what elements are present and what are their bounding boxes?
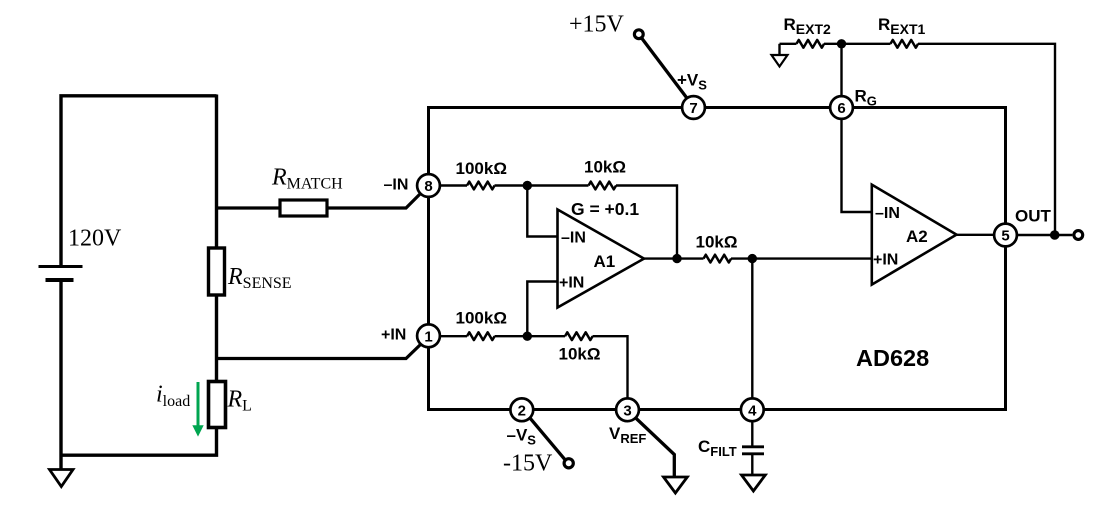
svg-text:A2: A2 — [906, 227, 928, 246]
wire pin1 row — [440, 335, 467, 337]
node mid junction — [748, 254, 757, 263]
label R_EXT1 — [878, 15, 926, 37]
svg-text:+IN: +IN — [381, 327, 406, 344]
wire A1 +IN rise — [527, 282, 557, 337]
svg-text:120V: 120V — [68, 226, 122, 252]
resistor 100k bottom — [467, 332, 495, 340]
wire mid junction to pin 4 — [751, 259, 753, 399]
label R_MATCH — [271, 165, 343, 193]
label 120V — [68, 226, 122, 252]
resistor 10k mid — [704, 255, 732, 263]
resistor R_MATCH — [280, 200, 327, 216]
battery 120V — [39, 267, 83, 456]
label A2 +IN — [873, 251, 898, 268]
wire left loop top edge — [61, 96, 217, 266]
wire top external row — [780, 43, 797, 45]
svg-text:–IN: –IN — [561, 230, 586, 247]
node A1 output — [672, 254, 681, 263]
op-amp A1 — [558, 210, 645, 308]
ground C_FILT — [742, 475, 766, 491]
svg-text:-15V: -15V — [503, 451, 553, 477]
pin 2 — [510, 398, 533, 421]
AD628 box — [429, 108, 1006, 410]
label 10k mid — [696, 233, 738, 252]
pin 3 — [616, 398, 639, 421]
wire R_MATCH to pin 8 — [327, 194, 421, 209]
wire to junction — [495, 184, 589, 186]
svg-text:10kΩ: 10kΩ — [696, 233, 738, 252]
label -15V — [503, 451, 553, 477]
current arrow i_load — [192, 382, 203, 437]
label R_EXT2 — [784, 15, 832, 37]
svg-text:6: 6 — [837, 100, 845, 117]
resistor R_SENSE — [209, 248, 225, 295]
pin 8 — [417, 174, 440, 197]
wire OUT — [1017, 234, 1072, 236]
pin 4 — [741, 398, 764, 421]
label A1 +IN — [559, 275, 584, 292]
svg-text:–IN: –IN — [384, 177, 409, 194]
ground R_EXT2 — [772, 44, 788, 67]
wire bottom edge — [61, 428, 217, 456]
svg-text:+IN: +IN — [873, 251, 898, 268]
svg-text:G = +0.1: G = +0.1 — [571, 199, 639, 219]
label 10k feedback — [584, 158, 626, 177]
wire A2 output to pin 5 — [957, 234, 995, 236]
wire pin3 to ground — [635, 418, 674, 477]
ground bottom-left — [50, 455, 74, 487]
resistor R_EXT1 — [891, 40, 919, 48]
wire feedback to output — [616, 186, 677, 259]
svg-text:–IN: –IN — [875, 205, 900, 222]
label A1 — [594, 252, 616, 271]
terminal OUT — [1074, 231, 1083, 240]
label i_load — [156, 381, 190, 410]
node junction bottom — [523, 332, 532, 341]
svg-text:10kΩ: 10kΩ — [584, 158, 626, 177]
wire +IN branch — [217, 345, 421, 359]
label R_L — [227, 387, 252, 415]
wire between R_SENSE and R_L — [215, 295, 218, 382]
terminal -15V — [530, 418, 574, 468]
wire between REXT2 and REXT1 — [824, 43, 891, 45]
svg-text:3: 3 — [623, 402, 631, 419]
pin 1 — [417, 324, 440, 347]
svg-text:100kΩ: 100kΩ — [456, 159, 507, 178]
wire R_MATCH branch — [217, 206, 281, 209]
label AD628 — [856, 345, 929, 371]
svg-text:7: 7 — [689, 100, 697, 117]
label G = +0.1 — [571, 199, 639, 219]
svg-text:A1: A1 — [594, 252, 616, 271]
terminal +15V — [634, 30, 688, 100]
resistor 10k feedback — [589, 182, 617, 190]
label -IN — [384, 177, 409, 194]
label 100k top — [456, 159, 507, 178]
wire A1 output — [644, 257, 704, 259]
svg-text:100kΩ: 100kΩ — [456, 309, 507, 328]
label A2 -IN — [875, 205, 900, 222]
svg-text:4: 4 — [748, 402, 757, 419]
svg-text:5: 5 — [1001, 228, 1009, 245]
ground V_REF — [664, 477, 688, 493]
wire 10k mid to A2 — [731, 257, 872, 259]
label R_G — [855, 87, 877, 109]
wire left loop right edge upper — [215, 95, 218, 249]
label OUT — [1015, 207, 1052, 226]
resistor 10k bottom — [565, 332, 593, 340]
node OUT junction — [1050, 230, 1060, 240]
pin 7 — [682, 96, 705, 119]
svg-text:1: 1 — [424, 328, 432, 345]
svg-text:+IN: +IN — [559, 275, 584, 292]
label +VS — [677, 71, 707, 93]
wire -IN drop to A1 — [527, 186, 557, 237]
pin 6 — [830, 96, 853, 119]
label -VS — [507, 425, 537, 447]
wire junction to pin 6 — [840, 44, 842, 96]
svg-text:10kΩ: 10kΩ — [559, 345, 601, 364]
op-amp A2 — [872, 185, 957, 285]
resistor R_EXT2 — [797, 40, 825, 48]
pin 5 — [994, 224, 1017, 247]
wire to junction bottom — [495, 335, 566, 337]
svg-text:8: 8 — [424, 178, 432, 195]
label V_REF — [609, 424, 646, 446]
label 10k bottom — [559, 345, 601, 364]
label R_SENSE — [227, 264, 292, 292]
label 100k bottom — [456, 309, 507, 328]
label +IN — [381, 327, 406, 344]
wire pin8 row — [440, 184, 467, 186]
capacitor C_FILT — [742, 421, 764, 475]
svg-text:2: 2 — [518, 402, 526, 419]
svg-text:OUT: OUT — [1015, 207, 1052, 226]
wire 10k bottom to pin 3 — [593, 336, 628, 398]
label C_FILT — [698, 437, 737, 459]
node junction top — [523, 181, 532, 190]
node R_G junction — [837, 39, 846, 48]
svg-text:+15V: +15V — [569, 12, 625, 38]
resistor 100k top — [467, 182, 495, 190]
resistor R_L — [209, 382, 226, 428]
label A1 -IN — [561, 230, 586, 247]
wire R_EXT1 to OUT — [918, 44, 1055, 235]
label A2 — [906, 227, 928, 246]
svg-text:AD628: AD628 — [856, 345, 929, 371]
wire pin6 drop to A2 — [842, 119, 872, 212]
label +15V — [569, 12, 625, 38]
